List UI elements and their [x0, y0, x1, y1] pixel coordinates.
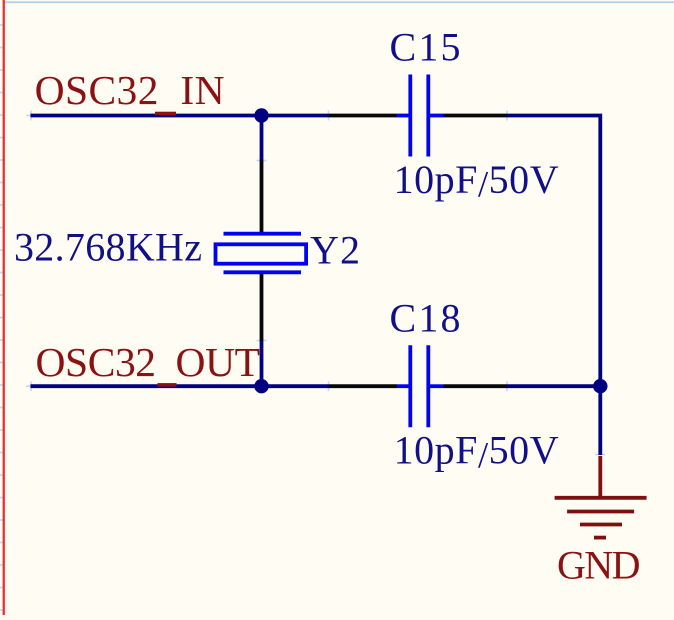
svg-text:10pF/50V: 10pF/50V — [394, 157, 559, 205]
svg-text:32.768KHz: 32.768KHz — [14, 225, 202, 270]
svg-text:GND: GND — [557, 543, 641, 588]
svg-text:10pF/50V: 10pF/50V — [394, 428, 559, 476]
svg-text:OSC32 IN: OSC32 IN — [35, 67, 225, 113]
svg-text:OSC32 OUT: OSC32 OUT — [36, 339, 261, 385]
svg-text:Y2: Y2 — [310, 227, 360, 272]
svg-text:C18: C18 — [390, 295, 461, 340]
svg-text:C15: C15 — [390, 25, 461, 70]
